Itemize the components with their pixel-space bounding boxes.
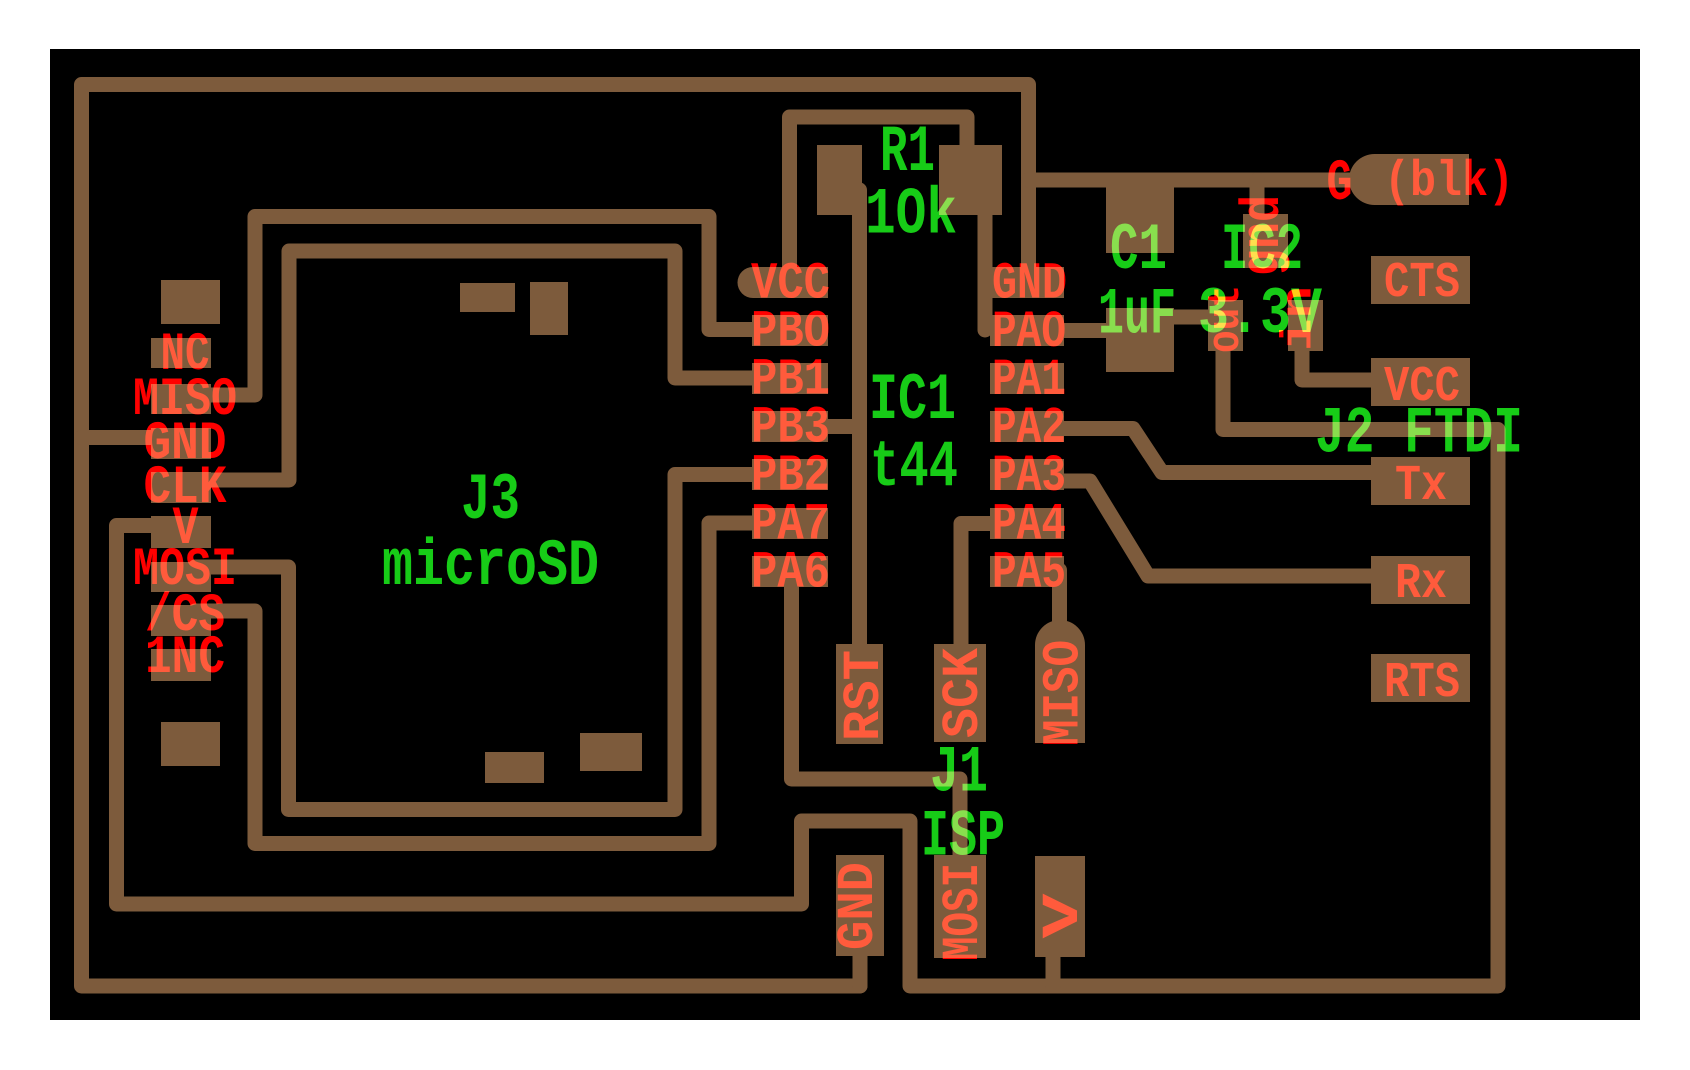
pad J3 V: [151, 516, 211, 548]
pad J3 NC: [151, 338, 211, 368]
pad J1 V: [1035, 856, 1085, 957]
svg-text:microSD: microSD: [382, 529, 599, 604]
pad J1 GND: [836, 855, 884, 956]
wire ISP GND stub: [853, 950, 868, 986]
svg-text:MOSI: MOSI: [934, 863, 993, 961]
wire VCC R1.2 top rail: [790, 117, 968, 285]
pad IC1 PA4: [990, 508, 1064, 539]
svg-text:SCK: SCK: [934, 647, 993, 738]
svg-text:ISP: ISP: [921, 800, 1005, 875]
pad G blk capsule: [1349, 154, 1469, 205]
wire R1.2 to PA0: [978, 190, 993, 330]
svg-text:t44: t44: [870, 430, 958, 505]
pad IC1 PA6: [752, 556, 828, 587]
pad J3 /CS: [151, 605, 211, 636]
pad J3 MOSI: [151, 562, 211, 592]
pad J1 RST: [836, 644, 883, 744]
wire MOSI J3 to PB2: [195, 475, 765, 810]
wire GND rail to G pad: [1029, 173, 1361, 188]
pad J1 SCK: [934, 644, 986, 742]
pad C1 bottom: [1106, 308, 1174, 372]
svg-text:PA6: PA6: [751, 544, 830, 603]
svg-text:3.3V: 3.3V: [1198, 277, 1322, 352]
wire PA6 to ISP MOSI: [792, 575, 961, 875]
wire PA2 to Tx: [1055, 429, 1385, 473]
wire PA0 to C1: [1050, 323, 1115, 338]
wire MISO J3 to PB0: [195, 217, 765, 396]
svg-text:J3: J3: [461, 463, 520, 538]
pad J3 GND: [151, 428, 211, 459]
svg-text:CTS: CTS: [1384, 255, 1460, 312]
pad IC1 PA0: [990, 315, 1064, 346]
pad J3 top square: [161, 280, 220, 324]
svg-text:RST: RST: [835, 650, 894, 741]
wire PB3 stub: [820, 419, 860, 434]
wire /CS J3 to PA7: [195, 523, 765, 844]
pad IC2 out: [1208, 300, 1243, 351]
pad J2 CTS: [1371, 256, 1470, 304]
wire ISP V stub: [1046, 945, 1061, 986]
svg-text:(blk): (blk): [1384, 154, 1514, 211]
pad IC2 in: [1288, 300, 1323, 351]
svg-text:G: G: [1327, 152, 1353, 217]
wire J3 GND pad to border: [82, 430, 171, 445]
pad J3 inner top wide: [460, 283, 515, 312]
pad J3 inner bottom 1: [485, 752, 544, 783]
svg-text:V: V: [1034, 892, 1093, 938]
pad IC1 PA5: [990, 556, 1064, 587]
svg-text:Rx: Rx: [1395, 556, 1447, 613]
svg-text:MISO: MISO: [1035, 640, 1094, 746]
pad IC1 PA1: [990, 363, 1064, 394]
svg-text:GND: GND: [829, 862, 888, 950]
pad J2 Tx: [1371, 457, 1470, 505]
pad IC1 PA3: [990, 459, 1064, 490]
pad J3 CLK: [151, 472, 211, 503]
pad J3 MISO: [151, 384, 211, 414]
pad IC1 GND: [990, 267, 1064, 298]
pad IC1 PB2: [752, 459, 828, 490]
pad C1 top: [1106, 185, 1174, 253]
pad J3 1NC: [151, 649, 211, 681]
pad J3 inner bottom 2: [580, 733, 642, 771]
pad IC1 PA2: [990, 411, 1064, 442]
pad J2 RTS: [1371, 654, 1470, 702]
wire PA3 to Rx: [1055, 481, 1385, 576]
wire C1 to IC2 out: [1160, 310, 1220, 325]
pad IC1 PB3: [752, 411, 828, 442]
pad J3 bottom square: [161, 722, 220, 766]
pad J1 MOSI: [934, 855, 986, 958]
svg-text:1Ok: 1Ok: [865, 178, 957, 253]
pad R1.2: [939, 145, 1002, 215]
wire RST net R1.1 to PB3 to RST: [852, 190, 867, 690]
pad IC1 PA7: [752, 508, 828, 539]
pad IC1 PB0: [752, 315, 828, 346]
wire CLK J3 to PB1: [195, 251, 765, 480]
svg-text:IC1: IC1: [869, 363, 956, 438]
pad IC1 VCC pin1 capsule: [737, 267, 828, 298]
svg-text:PA5: PA5: [992, 544, 1066, 603]
pad J1 MISO capsule: [1035, 620, 1085, 743]
svg-text:1uF: 1uF: [1098, 278, 1176, 353]
pad J2 VCC: [1371, 358, 1470, 406]
pad IC1 PB1: [752, 363, 828, 394]
wire J2 VCC to IC2 in: [1302, 330, 1385, 380]
svg-text:1NC: 1NC: [145, 628, 225, 689]
pad J2 Rx: [1371, 556, 1470, 604]
wire 3V3 long rail: [117, 330, 1499, 986]
pad J3 inner top square: [530, 282, 568, 335]
pad R1.1: [817, 145, 862, 215]
wire GND drop to IC2 gnd pin: [1250, 180, 1265, 240]
wire PA5 to ISP MISO: [1052, 570, 1067, 645]
svg-text:RTS: RTS: [1384, 655, 1460, 712]
pad IC2 gnd: [1243, 214, 1288, 268]
wire GND border loop: [82, 85, 1029, 987]
svg-text:J2 FTDI: J2 FTDI: [1315, 397, 1523, 472]
wire SCK to PA4: [961, 524, 1005, 701]
